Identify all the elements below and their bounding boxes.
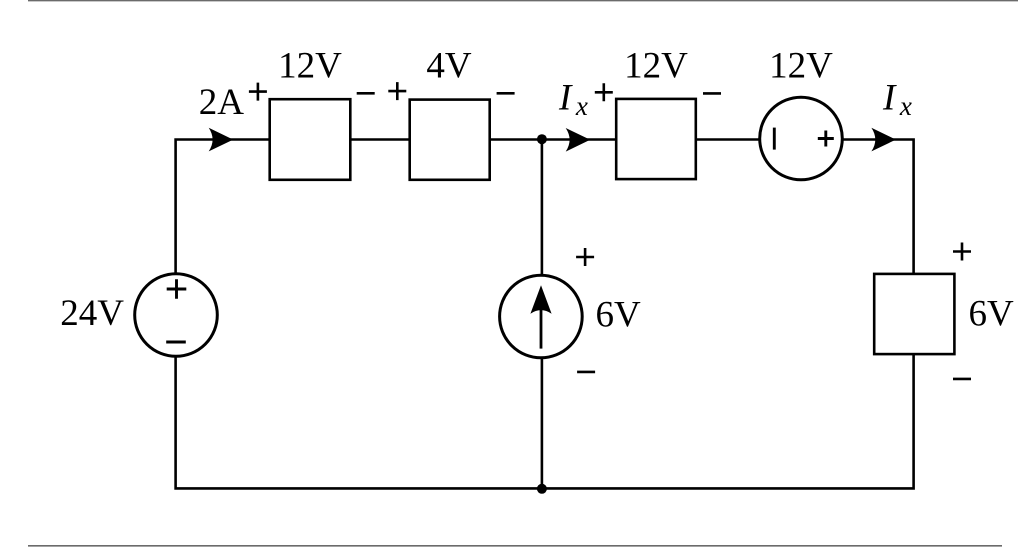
svg-text:Ix: Ix — [882, 77, 912, 121]
polarity - below source U2 — [577, 371, 595, 374]
wire: middle branch lower (source circle down to bottom node) — [541, 358, 544, 488]
polarity + left of box R3 — [595, 83, 613, 101]
polarity - below box R4 — [953, 378, 971, 381]
svg-text:12V: 12V — [624, 45, 688, 86]
wire: top rail from source circle 12V to right corner, down to box 6V — [843, 140, 914, 275]
svg-text:6V: 6V — [596, 295, 642, 336]
wire: top rail between box 12V and box 4V — [350, 138, 411, 141]
polarity - right of box R3 — [703, 92, 721, 95]
bottom node junction dot — [537, 484, 547, 494]
arrow: Ix after node A — [566, 128, 591, 152]
arrow: Ix before right corner — [871, 128, 896, 152]
node A junction dot (top middle) — [537, 134, 547, 144]
svg-text:12V: 12V — [769, 46, 833, 87]
wire: top rail from box 4V through node A to box 12V (second) — [489, 138, 617, 141]
polarity + above source U2 — [576, 248, 594, 266]
polarity + left of box R2 — [388, 82, 406, 100]
wire: top rail from box3 to source circle 12V — [695, 138, 760, 141]
svg-text:6V: 6V — [969, 294, 1015, 335]
element box R3 (12V) — [616, 99, 696, 179]
element box R4 (6V right) — [874, 274, 954, 354]
polarity + above box R4 — [953, 243, 971, 261]
svg-text:2A: 2A — [199, 82, 245, 123]
voltage source U3: rotated minus (vertical bar) inside — [773, 128, 776, 150]
wire: middle branch upper (node A down to source circle) — [541, 140, 544, 276]
voltage source V1 24V: circle — [135, 274, 218, 357]
voltage source V1: minus sign inside — [166, 341, 186, 344]
cropped frame line bottom — [28, 545, 1002, 547]
polarity + left of box R1 — [249, 83, 267, 101]
svg-text:24V: 24V — [60, 293, 124, 334]
svg-text:4V: 4V — [426, 45, 472, 86]
polarity - right of box R2 — [497, 92, 515, 95]
svg-text:12V: 12V — [278, 45, 342, 86]
polarity - right of box R1 — [357, 92, 375, 95]
voltage source U3: plus sign inside — [818, 131, 834, 147]
element box R1 (12V) — [270, 99, 351, 180]
voltage source U3 12V (top right): circle — [760, 97, 843, 180]
arrow: 2A current direction — [209, 128, 234, 152]
cropped frame line top — [28, 0, 1018, 2]
svg-text:Ix: Ix — [558, 78, 588, 122]
source U2: arrow shaft (up) — [540, 306, 543, 349]
wire: left branch top corner (source V1 up to top rail) — [176, 140, 271, 274]
element box R2 (4V) — [410, 100, 490, 180]
voltage source V1: plus sign inside — [167, 279, 187, 299]
source U2 6V (middle): circle — [500, 275, 583, 358]
source U2: arrowhead (up) — [530, 285, 551, 313]
wire: left branch lower + bottom rail + right branch lower — [176, 354, 914, 489]
